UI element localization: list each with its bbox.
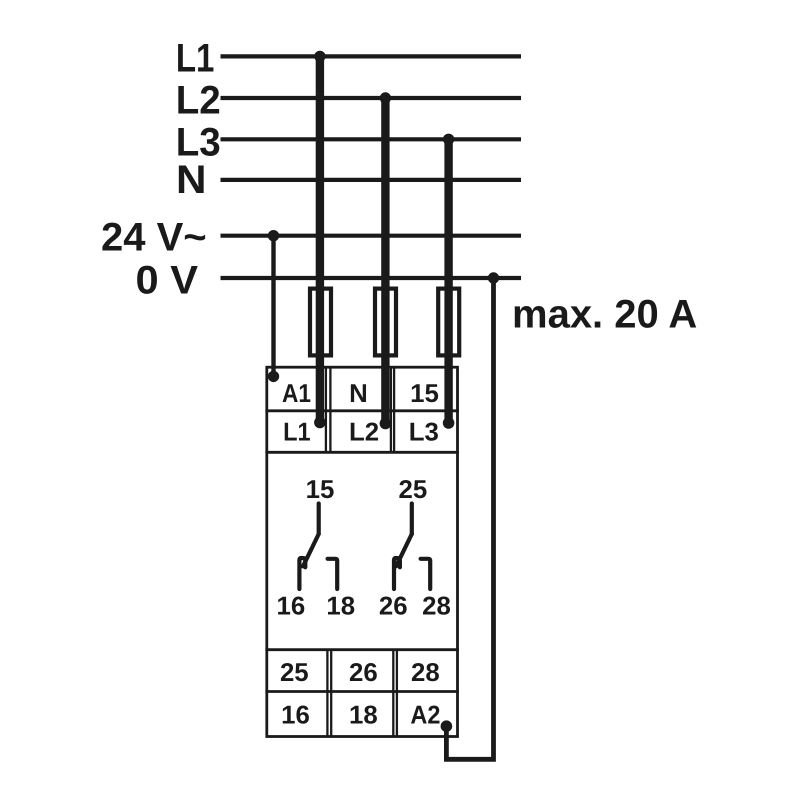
svg-text:0 V: 0 V <box>136 259 199 303</box>
svg-text:15: 15 <box>306 476 335 504</box>
svg-text:26: 26 <box>349 659 378 687</box>
contact 18 fixed post <box>328 559 338 589</box>
junction dot L2 bus <box>380 92 391 103</box>
junction dot 24V bus <box>268 230 279 241</box>
junction dot 0V bus <box>488 272 499 283</box>
junction dot L3 bus <box>443 134 454 145</box>
svg-text:25: 25 <box>280 659 309 687</box>
wire L3 drop to terminal L3 <box>444 139 452 421</box>
grid line row2 bottom <box>265 451 459 454</box>
contact 26 fixed post with hook <box>394 558 400 589</box>
svg-text:L2: L2 <box>176 79 221 123</box>
svg-text:18: 18 <box>349 701 378 729</box>
cell separator bottom band col1/col2 <box>326 650 328 737</box>
svg-text:N: N <box>349 380 368 408</box>
cell separator top band col1/col2 <box>325 367 327 452</box>
svg-text:26: 26 <box>379 592 408 620</box>
junction dot L1 bus <box>314 51 325 62</box>
contact 15-16 moving arm <box>303 534 319 566</box>
svg-text:28: 28 <box>411 659 440 687</box>
wire 0V supply bus <box>221 276 522 280</box>
svg-text:L1: L1 <box>283 418 311 446</box>
wire L2 bus <box>221 96 522 100</box>
svg-text:N: N <box>176 158 207 202</box>
svg-text:25: 25 <box>399 476 428 504</box>
fuse F2 (L2) <box>375 289 396 356</box>
svg-text:L3: L3 <box>409 418 439 446</box>
cell separator bottom band col2/col3 <box>392 650 394 737</box>
wire 0V run to terminal A2 <box>446 278 493 759</box>
fuse F1 (L1) <box>310 289 331 356</box>
terminal dot L2 <box>380 418 392 430</box>
contact 28 fixed post <box>421 559 431 589</box>
svg-text:L1: L1 <box>176 37 215 81</box>
wire L1 bus <box>221 54 522 58</box>
svg-text:L2: L2 <box>349 418 379 446</box>
contact 16 fixed post with hook <box>299 558 305 589</box>
wire L2 drop to terminal L2 <box>381 98 389 421</box>
cell separator top band col2/col3 <box>390 367 392 452</box>
grid line row3 top <box>265 648 459 651</box>
svg-text:A2: A2 <box>410 701 440 729</box>
fuse F3 (L3) <box>438 289 459 356</box>
contact 25 common stub <box>410 504 414 535</box>
terminal dot A2 <box>441 720 453 732</box>
relay device outline <box>267 367 458 736</box>
svg-text:28: 28 <box>422 592 451 620</box>
svg-text:18: 18 <box>326 592 355 620</box>
svg-text:15: 15 <box>410 380 439 408</box>
wire L1 drop to terminal L1 <box>316 56 324 420</box>
wire N bus <box>221 178 522 182</box>
wire 24V drop to terminal A1 <box>271 236 275 373</box>
svg-text:24 V~: 24 V~ <box>101 216 207 260</box>
contact 15 common stub <box>317 504 321 535</box>
terminal dot A1 <box>268 371 279 382</box>
contact 25-26 moving arm <box>396 534 412 566</box>
wire L3 bus <box>221 137 522 141</box>
terminal dot L1 <box>314 417 326 429</box>
svg-text:16: 16 <box>277 592 306 620</box>
svg-text:16: 16 <box>281 701 310 729</box>
grid line row1/row2 <box>265 409 459 412</box>
wire 24V supply bus <box>221 234 522 238</box>
svg-text:max. 20 A: max. 20 A <box>512 293 697 337</box>
terminal dot L3 <box>443 417 455 429</box>
grid line row3/row4 <box>265 690 459 693</box>
svg-text:A1: A1 <box>282 380 311 408</box>
